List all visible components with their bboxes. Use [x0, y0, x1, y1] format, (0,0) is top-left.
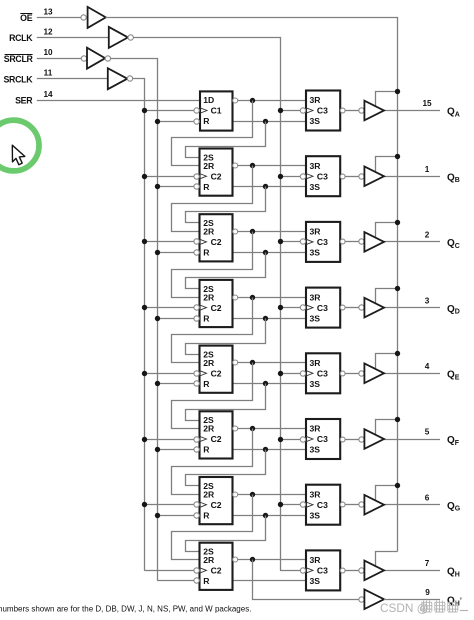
flip-flop FF1 (1D C1 R): [200, 91, 233, 130]
svg-text:RCLK: RCLK: [9, 33, 33, 43]
svg-text:C2: C2: [211, 303, 222, 313]
flip-flop FF2 (2S 2R C2 R): [200, 149, 233, 196]
latch 2 (3R C3 3S): [306, 156, 340, 196]
three-state buffer 2: [364, 166, 384, 186]
inverter U4 output bubble: [127, 76, 132, 81]
FF1 R bubble: [194, 119, 199, 124]
junction Qbar4 node: [263, 316, 268, 321]
wire QF output pin 5: [384, 439, 440, 441]
annotation: mouse cursor: [12, 145, 24, 165]
junction reset/R6: [155, 447, 160, 452]
wire latch 6 output to buffer: [345, 439, 359, 441]
inverter U1 (OE): [88, 7, 106, 28]
latch 5 output bubble: [340, 371, 345, 376]
svg-text:C3: C3: [317, 500, 328, 510]
flip-flop FF6 (2S 2R C2 R): [200, 411, 233, 458]
junction Q8 node: [250, 557, 255, 562]
junction Qbar3 node: [263, 250, 268, 255]
FF7 R bubble: [194, 513, 199, 518]
buffer 8 input bubble: [359, 568, 364, 573]
wire Q5 to 2R of FF6: [172, 363, 253, 429]
buffer 2 input bubble: [359, 174, 364, 179]
svg-text:12: 12: [43, 27, 53, 36]
svg-text:3S: 3S: [310, 379, 321, 389]
wire Qbar7 to latch 3S: [233, 515, 307, 517]
input label RCLK pin 12: [9, 27, 53, 43]
svg-text:SRCLR: SRCLR: [4, 54, 34, 64]
junction OE bus stage 1: [395, 89, 400, 94]
svg-text:2R: 2R: [203, 358, 215, 368]
wire latch-clock bus to C3 of latch 6: [280, 439, 300, 441]
junction Q7 node: [250, 492, 255, 497]
junction shift-clock/C4: [142, 305, 147, 310]
junction Qbar6 node: [263, 447, 268, 452]
FF5 Q output bubble: [233, 360, 238, 365]
svg-text:R: R: [203, 313, 210, 323]
wire latch-clock bus to C3 of latch 1: [280, 110, 300, 112]
junction shift-clock/C2: [142, 174, 147, 179]
svg-text:3R: 3R: [310, 161, 322, 171]
wire Qbar3 to 2S of FF4: [186, 253, 266, 289]
FF5 C2 bubble: [194, 371, 199, 376]
svg-text:SRCLK: SRCLK: [3, 75, 33, 85]
wire RCLK to latch-clock bus: [134, 38, 281, 571]
latch 5 (3R C3 3S): [306, 353, 340, 393]
svg-text:C2: C2: [211, 566, 222, 576]
FF4 R bubble: [194, 316, 199, 321]
svg-text:5: 5: [425, 428, 430, 437]
svg-text:3S: 3S: [310, 510, 321, 520]
wire SRCLK to shift-clock bus: [133, 79, 145, 571]
wire Qbar8 to latch 3S: [233, 580, 307, 582]
wire latch 4 output to buffer: [345, 307, 359, 309]
svg-text:2R: 2R: [203, 161, 215, 171]
FF3 Q output bubble: [233, 229, 238, 234]
svg-text:C2: C2: [211, 500, 222, 510]
wire Q4 to 2R of FF5: [172, 298, 253, 363]
junction reset/R4: [155, 316, 160, 321]
svg-text:R: R: [203, 248, 210, 258]
junction latch-clock/C3 stage 6: [278, 437, 283, 442]
wire Q6 to latch 3R: [238, 428, 306, 430]
wire C2 clock from shift-clock bus: [144, 176, 194, 178]
wire OE control to buffer 4: [376, 289, 398, 304]
svg-text:1D: 1D: [203, 95, 214, 105]
wire C7 clock from shift-clock bus: [144, 504, 194, 506]
junction reset/R2: [155, 184, 160, 189]
svg-text:11: 11: [44, 69, 53, 78]
wire Q8 to latch 3R: [238, 559, 306, 561]
wire SER to 1D: [37, 100, 200, 102]
junction Q3 node: [250, 229, 255, 234]
latch 4 C3 bubble: [300, 305, 305, 310]
wire C6 clock from shift-clock bus: [144, 439, 194, 441]
wire QC output pin 2: [384, 241, 440, 243]
junction reset/R3: [155, 250, 160, 255]
wire latch 2 output to buffer: [345, 176, 359, 178]
junction Qbar2 node: [263, 184, 268, 189]
svg-text:3R: 3R: [310, 555, 322, 565]
wire latch-clock bus to C3 of latch 3: [280, 241, 300, 243]
wire OE to output-enable bus: [106, 18, 398, 552]
wire Q8 to QH' buffer: [253, 560, 359, 600]
wire Q3 to 2R of FF4: [172, 232, 253, 298]
three-state buffer 8: [364, 561, 384, 581]
svg-text:13: 13: [43, 7, 53, 16]
flip-flop FF8 (2S 2R C2 R): [200, 543, 233, 590]
junction latch-clock/C3 stage 4: [278, 305, 283, 310]
svg-text:QF: QF: [447, 435, 460, 447]
svg-text:C1: C1: [211, 106, 222, 116]
inverter OE input bubble: [81, 15, 86, 20]
junction latch-clock/C3 stage 5: [278, 371, 283, 376]
watermark CSDN: [380, 601, 468, 616]
wire OE control to buffer 7: [376, 486, 398, 501]
wire Qbar1 to latch 3S: [233, 121, 307, 123]
buffer QH': [364, 590, 384, 610]
svg-text:R: R: [203, 445, 210, 455]
inverter U4 (SRCLK): [108, 68, 128, 89]
wire Q5 to latch 3R: [238, 362, 306, 364]
FF7 C2 bubble: [194, 502, 199, 507]
buffer 4 input bubble: [359, 305, 364, 310]
inverter U3 output bubble: [105, 56, 110, 61]
wire Q7 to 2R of FF8: [172, 495, 253, 560]
svg-text:3: 3: [425, 296, 430, 305]
wire QH output pin 7: [384, 570, 440, 572]
svg-text:2R: 2R: [203, 489, 215, 499]
FF5 R bubble: [194, 381, 199, 386]
wire R reset from reset bus to FF3: [157, 252, 194, 254]
svg-text:3S: 3S: [310, 576, 321, 586]
svg-text:QC: QC: [447, 238, 460, 250]
FF3 C2 bubble: [194, 239, 199, 244]
wire SRCLK input: [37, 78, 108, 80]
input label SRCLK pin 11: [3, 69, 52, 85]
junction shift-clock/C3: [142, 239, 147, 244]
svg-text:C2: C2: [211, 171, 222, 181]
svg-text:3R: 3R: [310, 358, 322, 368]
buffer 1 input bubble: [359, 108, 364, 113]
svg-text:15: 15: [422, 99, 432, 108]
wire latch 3 output to buffer: [345, 241, 359, 243]
wire Qbar4 to 2S of FF5: [186, 319, 266, 355]
wire QB output pin 1: [384, 176, 440, 178]
FF1 Q output bubble: [233, 98, 238, 103]
FF6 R bubble: [194, 447, 199, 452]
junction latch-clock/C3 stage 7: [278, 502, 283, 507]
FF6 Q output bubble: [233, 426, 238, 431]
svg-text:2: 2: [425, 231, 430, 240]
svg-text:14: 14: [43, 90, 53, 99]
junction reset/R7: [155, 513, 160, 518]
wire C8 clock from shift-clock bus: [144, 570, 194, 572]
junction latch-clock/C3 stage 3: [278, 239, 283, 244]
latch 4 (3R C3 3S): [306, 288, 340, 328]
wire Q2 to latch 3R: [238, 165, 306, 167]
three-state buffer 3: [364, 232, 384, 252]
svg-text:3S: 3S: [310, 445, 321, 455]
wire latch 1 output to buffer: [345, 110, 359, 112]
buffer QH' input bubble: [359, 597, 364, 602]
wire SRCLR input: [37, 58, 82, 60]
junction OE bus stage 3: [395, 220, 400, 225]
wire Qbar6 to latch 3S: [233, 449, 307, 451]
input label SER pin 14: [15, 90, 53, 106]
latch 1 output bubble: [340, 108, 345, 113]
wire OE control to buffer 8: [376, 552, 398, 567]
latch 1 C3 bubble: [300, 108, 305, 113]
wire Qbar5 to 2S of FF6: [186, 384, 266, 421]
svg-text:3R: 3R: [310, 227, 322, 237]
FF7 Q output bubble: [233, 492, 238, 497]
svg-text:10: 10: [43, 48, 53, 57]
wire latch-clock bus to C3 of latch 2: [280, 176, 300, 178]
wire R reset from reset bus to FF2: [157, 186, 194, 188]
wire Qbar2 to latch 3S: [233, 186, 307, 188]
inverter U2 (RCLK): [109, 27, 128, 48]
flip-flop FF5 (2S 2R C2 R): [200, 346, 233, 393]
three-state buffer 7: [364, 495, 384, 515]
buffer 7 input bubble: [359, 502, 364, 507]
svg-text:C3: C3: [317, 434, 328, 444]
latch 7 C3 bubble: [300, 502, 305, 507]
wire Q2 to 2R of FF3: [172, 166, 253, 232]
three-state buffer 1: [364, 101, 384, 121]
svg-text:2R: 2R: [203, 424, 215, 434]
junction Qbar5 node: [263, 381, 268, 386]
input label SRCLR pin 10: [4, 48, 53, 64]
wire QA output pin 15: [384, 110, 440, 112]
svg-text:R: R: [203, 379, 210, 389]
junction shift-clock/C5: [142, 371, 147, 376]
wire latch-clock bus to C3 of latch 7: [280, 504, 300, 506]
junction OE bus stage 7: [395, 483, 400, 488]
svg-text:C2: C2: [211, 369, 222, 379]
wire OE control to buffer 5: [376, 354, 398, 370]
junction Qbar1 node: [263, 119, 268, 124]
buffer 6 input bubble: [359, 437, 364, 442]
wire Qbar6 to 2S of FF7: [186, 450, 266, 486]
FF8 Q output bubble: [233, 557, 238, 562]
three-state buffer 6: [364, 429, 384, 449]
svg-text:R: R: [203, 116, 210, 126]
wire QH' output pin 9: [384, 599, 440, 601]
svg-text:3S: 3S: [310, 182, 321, 192]
latch 8 (3R C3 3S): [306, 550, 340, 590]
junction OE bus stage 6: [395, 417, 400, 422]
latch 8 output bubble: [340, 568, 345, 573]
wire Qbar5 to latch 3S: [233, 383, 307, 385]
wire RCLK input: [37, 37, 109, 39]
flip-flop FF7 (2S 2R C2 R): [200, 477, 233, 524]
wire OE control to buffer 1: [376, 92, 398, 107]
svg-text:QE: QE: [447, 370, 460, 382]
FF4 Q output bubble: [233, 295, 238, 300]
FF6 C2 bubble: [194, 437, 199, 442]
svg-text:QG: QG: [447, 501, 461, 513]
svg-text:2R: 2R: [203, 555, 215, 565]
wire R reset from reset bus to FF7: [157, 515, 194, 517]
buffer 3 input bubble: [359, 239, 364, 244]
svg-text:3R: 3R: [310, 489, 322, 499]
wire Q4 to latch 3R: [238, 297, 306, 299]
inverter U3 input bubble: [81, 56, 86, 61]
wire R reset from reset bus to FF5: [157, 383, 194, 385]
junction latch-clock/C3 stage 1: [278, 108, 283, 113]
latch 3 C3 bubble: [300, 239, 305, 244]
svg-text:C2: C2: [211, 237, 222, 247]
junction reset/R1: [155, 119, 160, 124]
latch 5 C3 bubble: [300, 371, 305, 376]
three-state buffer 5: [364, 364, 384, 384]
svg-text:3S: 3S: [310, 116, 321, 126]
wire OE input: [37, 17, 81, 19]
wire OE control to buffer 3: [376, 223, 398, 238]
latch 8 C3 bubble: [300, 568, 305, 573]
flip-flop FF4 (2S 2R C2 R): [200, 280, 233, 327]
svg-text:R: R: [203, 182, 210, 192]
wire C3 clock from shift-clock bus: [144, 241, 194, 243]
svg-text:1: 1: [425, 165, 430, 174]
junction Q4 node: [250, 295, 255, 300]
svg-text:QB: QB: [447, 172, 460, 184]
FF2 R bubble: [194, 184, 199, 189]
FF8 C2 bubble: [194, 568, 199, 573]
svg-text:C3: C3: [317, 171, 328, 181]
svg-text:R: R: [203, 510, 210, 520]
flip-flop FF3 (2S 2R C2 R): [200, 214, 233, 261]
junction Q5 node: [250, 360, 255, 365]
svg-text:3R: 3R: [310, 424, 322, 434]
wire Qbar7 to 2S of FF8: [186, 516, 266, 552]
wire Qbar2 to 2S of FF3: [186, 187, 266, 223]
junction Q6 node: [250, 426, 255, 431]
latch 4 output bubble: [340, 305, 345, 310]
wire R reset from reset bus to FF6: [157, 449, 194, 451]
junction Q2 node: [250, 163, 255, 168]
wire latch 8 output to buffer: [345, 570, 359, 572]
three-state buffer 4: [364, 298, 384, 318]
svg-text:R: R: [203, 576, 210, 586]
wire Q3 to latch 3R: [238, 231, 306, 233]
junction latch-clock/C3 stage 2: [278, 174, 283, 179]
wire Q1 to 2R of FF2: [172, 101, 253, 166]
svg-text:QA: QA: [447, 107, 460, 119]
input label OE pin 13: [20, 7, 53, 23]
junction OE bus stage 5: [395, 351, 400, 356]
wire latch 7 output to buffer: [345, 504, 359, 506]
wire Qbar4 to latch 3S: [233, 318, 307, 320]
wire OE control to buffer 6: [376, 420, 398, 435]
svg-text:6: 6: [425, 493, 430, 502]
wire Q1 to latch 3R: [238, 100, 306, 102]
wire QD output pin 3: [384, 307, 440, 309]
svg-text:3S: 3S: [310, 313, 321, 323]
FF2 C2 bubble: [194, 174, 199, 179]
latch 7 output bubble: [340, 502, 345, 507]
junction Qbar7 node: [263, 513, 268, 518]
svg-text:4: 4: [425, 362, 430, 371]
wire Qbar3 to latch 3S: [233, 252, 307, 254]
latch 1 (3R C3 3S): [306, 91, 340, 131]
wire R reset from reset bus: [157, 121, 194, 123]
svg-text:C2: C2: [211, 434, 222, 444]
latch 3 (3R C3 3S): [306, 222, 340, 262]
annotation: green highlight ring: [0, 120, 39, 171]
latch 6 output bubble: [340, 437, 345, 442]
svg-text:2R: 2R: [203, 292, 215, 302]
wire latch-clock bus to C3 of latch 4: [280, 307, 300, 309]
junction Q1 node: [250, 98, 255, 103]
FF2 Q output bubble: [233, 163, 238, 168]
svg-text:7: 7: [425, 559, 430, 568]
svg-text:numbers shown are for the D, D: numbers shown are for the D, DB, DW, J, …: [0, 604, 251, 613]
inverter U2 output bubble: [128, 35, 133, 40]
wire latch 5 output to buffer: [345, 373, 359, 375]
wire Q6 to 2R of FF7: [172, 429, 253, 495]
wire Q7 to latch 3R: [238, 494, 306, 496]
svg-text:SER: SER: [15, 96, 33, 106]
svg-text:9: 9: [425, 588, 430, 597]
FF8 R bubble: [194, 578, 199, 583]
FF1 C1 bubble: [194, 108, 199, 113]
wire C5 clock from shift-clock bus: [144, 373, 194, 375]
junction OE bus stage 2: [395, 154, 400, 159]
latch 2 output bubble: [340, 174, 345, 179]
svg-text:2R: 2R: [203, 227, 215, 237]
wire OE control to buffer 2: [376, 157, 398, 173]
latch 6 C3 bubble: [300, 437, 305, 442]
svg-text:3R: 3R: [310, 95, 322, 105]
junction shift-clock/C1: [142, 108, 147, 113]
svg-text:3S: 3S: [310, 248, 321, 258]
wire latch-clock bus to C3 of latch 5: [280, 373, 300, 375]
wire Qbar1 to 2S of FF2: [186, 122, 266, 158]
svg-text:QH: QH: [447, 567, 460, 579]
svg-text:C3: C3: [317, 566, 328, 576]
junction OE bus stage 4: [395, 286, 400, 291]
svg-text:C3: C3: [317, 237, 328, 247]
latch 2 C3 bubble: [300, 174, 305, 179]
wire QG output pin 6: [384, 504, 440, 506]
wire SRCLR to reset bus: [111, 59, 158, 581]
junction reset/R5: [155, 381, 160, 386]
latch 6 (3R C3 3S): [306, 419, 340, 459]
svg-text:C3: C3: [317, 303, 328, 313]
latch 7 (3R C3 3S): [306, 485, 340, 525]
junction shift-clock/C7: [142, 502, 147, 507]
svg-text:C3: C3: [317, 369, 328, 379]
wire QE output pin 4: [384, 373, 440, 375]
svg-text:QD: QD: [447, 304, 460, 316]
wire C1 clock from shift-clock bus: [144, 110, 194, 112]
wire R reset from reset bus to FF8: [157, 580, 194, 582]
wire C4 clock from shift-clock bus: [144, 307, 194, 309]
wire R reset from reset bus to FF4: [157, 318, 194, 320]
latch 3 output bubble: [340, 239, 345, 244]
buffer 5 input bubble: [359, 371, 364, 376]
FF4 C2 bubble: [194, 305, 199, 310]
svg-text:OE: OE: [20, 13, 33, 23]
svg-text:3R: 3R: [310, 292, 322, 302]
svg-text:C3: C3: [317, 106, 328, 116]
junction shift-clock/C6: [142, 437, 147, 442]
wire latch-clock bus to C3 of latch 8: [280, 570, 300, 572]
inverter U3 (SRCLR): [87, 48, 105, 69]
FF3 R bubble: [194, 250, 199, 255]
